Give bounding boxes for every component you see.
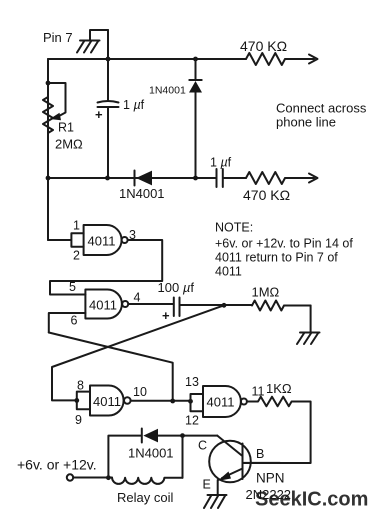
svg-text:NPN: NPN	[256, 471, 285, 486]
svg-text:470 KΩ: 470 KΩ	[240, 38, 287, 54]
svg-text:2: 2	[73, 249, 80, 263]
diode D1 1N4001 vertical	[189, 59, 201, 178]
svg-text:4011: 4011	[207, 395, 235, 410]
wire pin6 feedback down	[49, 313, 86, 333]
capacitor C3 100uf	[174, 298, 252, 317]
svg-text:8: 8	[77, 379, 84, 393]
ground right	[297, 306, 320, 345]
svg-text:4011: 4011	[88, 234, 116, 249]
svg-text:E: E	[203, 478, 211, 492]
wire emitter down	[217, 480, 219, 495]
wire supply to relay	[73, 477, 112, 479]
node rail-second wire	[46, 176, 51, 181]
svg-text:1: 1	[73, 219, 80, 233]
svg-text:B: B	[256, 447, 264, 461]
svg-text:+: +	[95, 107, 103, 122]
svg-text:1KΩ: 1KΩ	[266, 381, 292, 396]
op gate U1B 4011	[85, 290, 128, 319]
arrow right mid	[309, 174, 318, 183]
relay loop wires	[108, 436, 217, 478]
svg-text:NOTE:: NOTE:	[215, 221, 253, 235]
svg-text:+6v. or +12v.: +6v. or +12v.	[17, 457, 97, 473]
svg-text:Connect across: Connect across	[276, 101, 367, 116]
wire cross diagonal A	[52, 305, 224, 400]
node relay left	[106, 475, 111, 480]
node R1 tap	[46, 81, 51, 86]
op gate U1C 4011	[90, 386, 131, 416]
wire left rail	[47, 59, 49, 240]
node cap junction	[222, 303, 227, 308]
arrow right top	[309, 55, 318, 64]
diode D3 1N4001 relay	[141, 429, 143, 443]
node junction ground-cap top	[106, 57, 111, 62]
gate U1C input tie	[77, 392, 90, 410]
node cap1 bottom	[105, 176, 110, 181]
svg-text:10: 10	[133, 385, 147, 399]
wire U1A out to U1B in	[50, 240, 162, 295]
ground emitter	[204, 495, 227, 508]
wire base	[244, 462, 280, 464]
svg-text:Pin 7: Pin 7	[43, 30, 73, 45]
capacitor C2 1uf series	[217, 169, 247, 187]
svg-text:4011: 4011	[93, 394, 121, 409]
resistor 1K	[243, 397, 310, 463]
R1 wiper arm	[48, 83, 66, 116]
op gate U1A 4011	[84, 225, 128, 255]
svg-text:+: +	[162, 308, 170, 323]
terminal circle	[67, 474, 73, 480]
svg-text:+6v. or +12v. to Pin 14 of: +6v. or +12v. to Pin 14 of	[215, 237, 353, 251]
resistor R1 zigzag	[43, 97, 53, 133]
svg-text:100 µf: 100 µf	[158, 280, 195, 295]
svg-text:4011 return to Pin 7 of: 4011 return to Pin 7 of	[215, 251, 338, 265]
wire U1B output to cap	[128, 303, 173, 305]
svg-text:Relay coil: Relay coil	[117, 490, 173, 505]
resistor 470K bottom	[246, 172, 314, 184]
svg-text:R1: R1	[58, 121, 74, 135]
svg-text:1N4001: 1N4001	[149, 85, 186, 97]
svg-text:1 µf: 1 µf	[123, 98, 145, 112]
svg-text:1N4001: 1N4001	[128, 446, 174, 461]
svg-text:1N4001: 1N4001	[119, 186, 165, 201]
transistor collector	[217, 436, 242, 456]
wire U1C out to U1D in	[131, 400, 191, 402]
node junction diode top	[193, 57, 198, 62]
svg-text:4011: 4011	[215, 265, 242, 279]
svg-text:2MΩ: 2MΩ	[55, 137, 83, 152]
svg-text:5: 5	[69, 280, 76, 294]
svg-text:1 µf: 1 µf	[210, 156, 232, 170]
svg-text:12: 12	[185, 414, 199, 428]
node diode1 bottom	[193, 176, 198, 181]
resistor 470K top	[246, 53, 314, 65]
svg-text:4: 4	[134, 291, 141, 305]
svg-text:11: 11	[252, 385, 265, 399]
svg-text:SeekIC.com: SeekIC.com	[255, 489, 368, 511]
svg-text:phone line: phone line	[276, 115, 336, 130]
gate U1D input tie	[191, 394, 204, 411]
transistor Q1 circle	[209, 441, 251, 483]
node cross B join	[170, 399, 175, 404]
diode D2 1N4001 horizontal	[134, 171, 136, 186]
node U1C input	[74, 398, 79, 403]
wire cross diagonal B	[49, 333, 173, 402]
ground chassis symbol (Pin 7)	[77, 30, 108, 53]
node U1D input	[188, 399, 193, 404]
wire second horizontal	[48, 177, 216, 179]
node relay right	[180, 433, 185, 438]
wire top main horizontal	[48, 58, 246, 60]
svg-text:13: 13	[185, 375, 199, 389]
op gate U1D 4011	[203, 386, 247, 417]
resistor 1M	[252, 301, 311, 311]
capacitor C1 1uf vertical	[98, 101, 119, 107]
transistor emitter	[222, 469, 243, 479]
svg-text:470 KΩ: 470 KΩ	[243, 187, 290, 203]
gate U1A input tie	[48, 233, 84, 247]
svg-text:4011: 4011	[89, 298, 117, 313]
relay coil	[112, 478, 183, 484]
svg-text:1MΩ: 1MΩ	[252, 285, 280, 300]
svg-text:6: 6	[71, 314, 78, 328]
transistor base bar	[242, 444, 244, 480]
svg-text:9: 9	[75, 413, 82, 427]
svg-text:C: C	[198, 439, 207, 453]
